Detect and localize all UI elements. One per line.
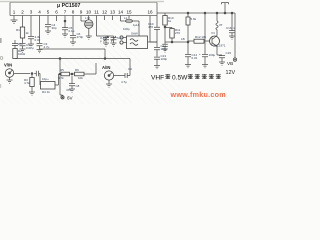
supply terminal VB xyxy=(234,55,236,58)
wire pin7 stub xyxy=(64,16,66,23)
svg-text:6: 6 xyxy=(55,10,58,15)
capacitor C12 xyxy=(154,48,160,50)
wire pin3 stub xyxy=(30,16,32,37)
wire bus B xyxy=(40,48,106,50)
capacitor C15 xyxy=(219,56,225,58)
source A/IN circle xyxy=(104,71,113,80)
svg-text:100p: 100p xyxy=(123,27,130,31)
ground C5 xyxy=(62,34,68,37)
wire C4 down xyxy=(47,27,49,31)
capacitor C4 xyxy=(45,25,51,27)
junction mid xyxy=(171,41,173,43)
svg-text:L M: L M xyxy=(85,16,90,20)
svg-text:470: 470 xyxy=(148,25,153,29)
svg-text:C15: C15 xyxy=(226,51,232,55)
svg-text:μ PC1507: μ PC1507 xyxy=(57,3,80,9)
svg-text:4.7μ: 4.7μ xyxy=(121,80,127,84)
tiny component labels xyxy=(16,16,235,94)
connector J2 circles xyxy=(120,36,123,39)
wire pin2 stub xyxy=(22,16,24,28)
svg-text:270: 270 xyxy=(175,31,180,35)
svg-text:5.6k: 5.6k xyxy=(191,17,197,21)
pin numbers 1-16 xyxy=(13,10,153,15)
wire pin13 stub xyxy=(112,16,114,21)
ground C14 xyxy=(185,65,191,68)
scan noise top edge xyxy=(0,1,164,2)
top supply rail xyxy=(157,12,235,14)
capacitor C3 xyxy=(37,44,43,46)
ground C18 xyxy=(162,49,168,52)
svg-text:0.1μ: 0.1μ xyxy=(69,29,75,33)
junction R5R6 xyxy=(71,73,73,75)
svg-text:4.7μ: 4.7μ xyxy=(44,45,50,49)
supply node 6V xyxy=(61,96,64,99)
wire C6 down xyxy=(72,38,74,42)
wire C9 riser xyxy=(129,59,131,76)
resistor R12 xyxy=(188,40,194,42)
ground C15 xyxy=(219,62,225,65)
capacitor C11 xyxy=(154,27,160,29)
wire pin14 stub xyxy=(121,16,125,22)
capacitor C6 xyxy=(70,36,76,38)
svg-text:10μ+: 10μ+ xyxy=(42,77,49,81)
svg-text:0.02: 0.02 xyxy=(35,38,41,42)
junction 188-42 xyxy=(187,41,189,43)
wire pin8 stub xyxy=(72,16,74,36)
capacitor C14 xyxy=(185,55,191,57)
junction x62 chain xyxy=(59,73,61,75)
wire pin6 stub xyxy=(56,16,58,22)
svg-text:13: 13 xyxy=(110,10,116,15)
crystal X1 xyxy=(85,20,93,28)
IC U1 uPC1507 box xyxy=(10,3,157,16)
junction C16 rail xyxy=(231,12,233,14)
svg-text:1k: 1k xyxy=(26,31,30,35)
junction R3 top xyxy=(31,73,33,75)
junction collector rail xyxy=(216,12,218,14)
ground C8 xyxy=(69,89,75,92)
trimmer capacitor CT1 xyxy=(103,36,109,42)
capacitor C7 xyxy=(12,40,18,49)
svg-text:470: 470 xyxy=(66,88,71,92)
module M1 box xyxy=(41,82,56,90)
svg-text:0.01: 0.01 xyxy=(192,56,198,60)
svg-text:10n: 10n xyxy=(18,42,23,46)
svg-text:VHF: VHF xyxy=(151,75,164,82)
wire R5-R6 xyxy=(70,73,75,75)
scan noise left edge xyxy=(0,57,3,60)
vertical net x188 xyxy=(187,13,189,54)
wire C14 down xyxy=(187,57,189,65)
ground pin1 xyxy=(11,20,18,23)
capacitor C5 xyxy=(62,28,68,30)
svg-text:R1: R1 xyxy=(16,28,20,32)
svg-text:8: 8 xyxy=(72,10,75,15)
wire R6 right xyxy=(84,63,96,74)
main vertical net at x157 xyxy=(156,16,158,48)
ground C2 xyxy=(28,44,34,47)
wire C13 down xyxy=(156,59,158,65)
wire C3 down xyxy=(39,46,41,50)
svg-text:R6: R6 xyxy=(75,68,79,72)
wire pin10 stub xyxy=(88,16,90,20)
resistor R1 xyxy=(20,27,24,38)
capacitor C8 xyxy=(69,76,75,89)
svg-text:C9: C9 xyxy=(128,67,132,71)
wire R10 down xyxy=(164,25,166,28)
wire filter top feed xyxy=(138,30,140,36)
ground CT1 xyxy=(103,43,109,46)
wire R1 to C1 xyxy=(22,38,24,43)
filter Z1 box xyxy=(127,36,148,49)
svg-text:5-20: 5-20 xyxy=(117,36,123,40)
ground C1 xyxy=(20,49,26,52)
svg-text:0.5W: 0.5W xyxy=(172,75,188,82)
svg-text:10: 10 xyxy=(86,10,92,15)
capacitor C16 xyxy=(229,31,235,33)
wire pin16 stub xyxy=(150,16,157,43)
wire x62 drop xyxy=(59,59,61,73)
svg-text:10kΩ: 10kΩ xyxy=(18,52,26,56)
wire pin12 stub xyxy=(104,16,106,21)
junction x105 xyxy=(104,58,106,60)
svg-text:6V: 6V xyxy=(67,95,74,100)
svg-text:100μ: 100μ xyxy=(209,53,216,57)
wire L1 right xyxy=(133,21,139,30)
junction R10 xyxy=(164,26,166,28)
capacitor C13 xyxy=(154,57,160,59)
ground CT2 xyxy=(111,43,117,46)
svg-text:4.7k: 4.7k xyxy=(58,76,64,80)
svg-text:1k: 1k xyxy=(168,19,172,23)
wire pin4 stub xyxy=(39,16,41,44)
inductor L2 3T xyxy=(216,21,218,30)
svg-text:SAW: SAW xyxy=(131,32,138,36)
capacitor C2 xyxy=(28,37,34,39)
svg-text:1: 1 xyxy=(13,10,16,15)
ground C13 xyxy=(154,66,160,69)
svg-text:C8: C8 xyxy=(76,84,80,88)
wire pin9 stub xyxy=(81,16,86,22)
svg-text:10k: 10k xyxy=(78,76,83,80)
capacitor C18 xyxy=(162,42,168,49)
svg-text:LB: LB xyxy=(181,37,185,41)
wire bus A xyxy=(15,58,130,60)
junction bus xyxy=(59,58,61,60)
svg-text:www.fmku.com: www.fmku.com xyxy=(170,90,226,99)
wire X1 down xyxy=(88,28,90,36)
svg-text:4.7k: 4.7k xyxy=(24,81,30,85)
svg-text:100p: 100p xyxy=(161,57,168,61)
svg-text:4: 4 xyxy=(38,10,41,15)
wire R11 down xyxy=(165,28,172,43)
wire Z1 out xyxy=(148,41,158,43)
wire to 6V terminal xyxy=(60,76,63,96)
svg-text:+: + xyxy=(199,52,201,56)
ground R3 xyxy=(29,87,35,96)
svg-text:30p: 30p xyxy=(52,26,57,30)
svg-text:1μH: 1μH xyxy=(133,23,139,27)
junction rail 188 xyxy=(187,12,189,14)
electrolytic C17 xyxy=(204,13,206,54)
trimmer capacitor CT2 xyxy=(111,36,117,42)
svg-text:0.02μ: 0.02μ xyxy=(26,46,34,50)
svg-text:R5: R5 xyxy=(60,68,64,72)
wire C1 down xyxy=(22,46,24,49)
svg-text:R12 10k: R12 10k xyxy=(195,35,207,39)
inductor L1 xyxy=(126,19,133,23)
ground C4 xyxy=(45,31,51,34)
wire chain to R5 xyxy=(59,73,62,75)
svg-text:5: 5 xyxy=(47,10,50,15)
resistor R3 xyxy=(30,78,34,87)
ground V/IN xyxy=(7,77,13,83)
antenna ANT xyxy=(222,3,229,14)
svg-text:7: 7 xyxy=(64,10,67,15)
svg-text:VB: VB xyxy=(227,61,233,66)
node wire mid xyxy=(165,41,188,43)
svg-text:11: 11 xyxy=(94,10,99,15)
svg-text:2: 2 xyxy=(21,10,24,15)
wire pin5 stub xyxy=(47,16,49,25)
wire pin11 stub xyxy=(96,16,98,37)
wire R2 to bus xyxy=(14,58,16,60)
wire rail down right edge xyxy=(234,13,236,55)
source V/IN circle xyxy=(5,69,13,77)
resistor R6 xyxy=(75,72,85,76)
ground C16 xyxy=(229,36,235,39)
svg-text:C16: C16 xyxy=(226,26,232,30)
svg-text:L1: L1 xyxy=(124,16,128,20)
resistor R5 xyxy=(61,72,70,76)
svg-text:R4 1k: R4 1k xyxy=(42,90,50,94)
ground C6 xyxy=(70,42,76,45)
capacitor C9 xyxy=(114,73,130,78)
transistor Q1 xyxy=(210,36,220,46)
ground X1 xyxy=(86,36,92,39)
svg-text:3T: 3T xyxy=(219,23,223,27)
svg-text:15: 15 xyxy=(126,10,132,15)
svg-text:3: 3 xyxy=(30,10,33,15)
svg-text:100p: 100p xyxy=(161,47,168,51)
svg-text:470p: 470p xyxy=(77,35,84,39)
wire emitter down xyxy=(217,52,222,55)
svg-text:V/IN: V/IN xyxy=(4,63,12,68)
ground C3 xyxy=(37,50,43,53)
svg-text:12V: 12V xyxy=(226,70,236,76)
svg-text:16: 16 xyxy=(147,10,153,15)
wire pin15 stub xyxy=(128,16,130,19)
svg-text:V4: V4 xyxy=(211,31,215,35)
wire V/IN right xyxy=(14,73,30,75)
resistor R11 xyxy=(165,27,172,29)
svg-text:2SC1971: 2SC1971 xyxy=(213,44,226,48)
svg-text:9: 9 xyxy=(80,10,83,15)
ground A/IN xyxy=(106,80,112,87)
wire x105 drop xyxy=(104,49,106,59)
wire C12-C13 xyxy=(156,50,158,57)
wire C2 down xyxy=(30,39,32,44)
capacitor C1 xyxy=(20,44,26,46)
svg-text:A/IN: A/IN xyxy=(102,65,110,70)
watermark hatch patches xyxy=(0,16,240,104)
resistor R2 xyxy=(13,49,17,59)
ground C17 xyxy=(202,65,208,68)
svg-text:14: 14 xyxy=(118,10,124,15)
title text VHF section 0.5W TV transmitter xyxy=(151,74,221,81)
resistor R13 xyxy=(186,17,190,25)
junction pin7 xyxy=(64,20,66,22)
svg-text:12: 12 xyxy=(102,10,108,15)
resistor R10 xyxy=(164,13,166,16)
wire pin1 stub xyxy=(13,16,15,21)
